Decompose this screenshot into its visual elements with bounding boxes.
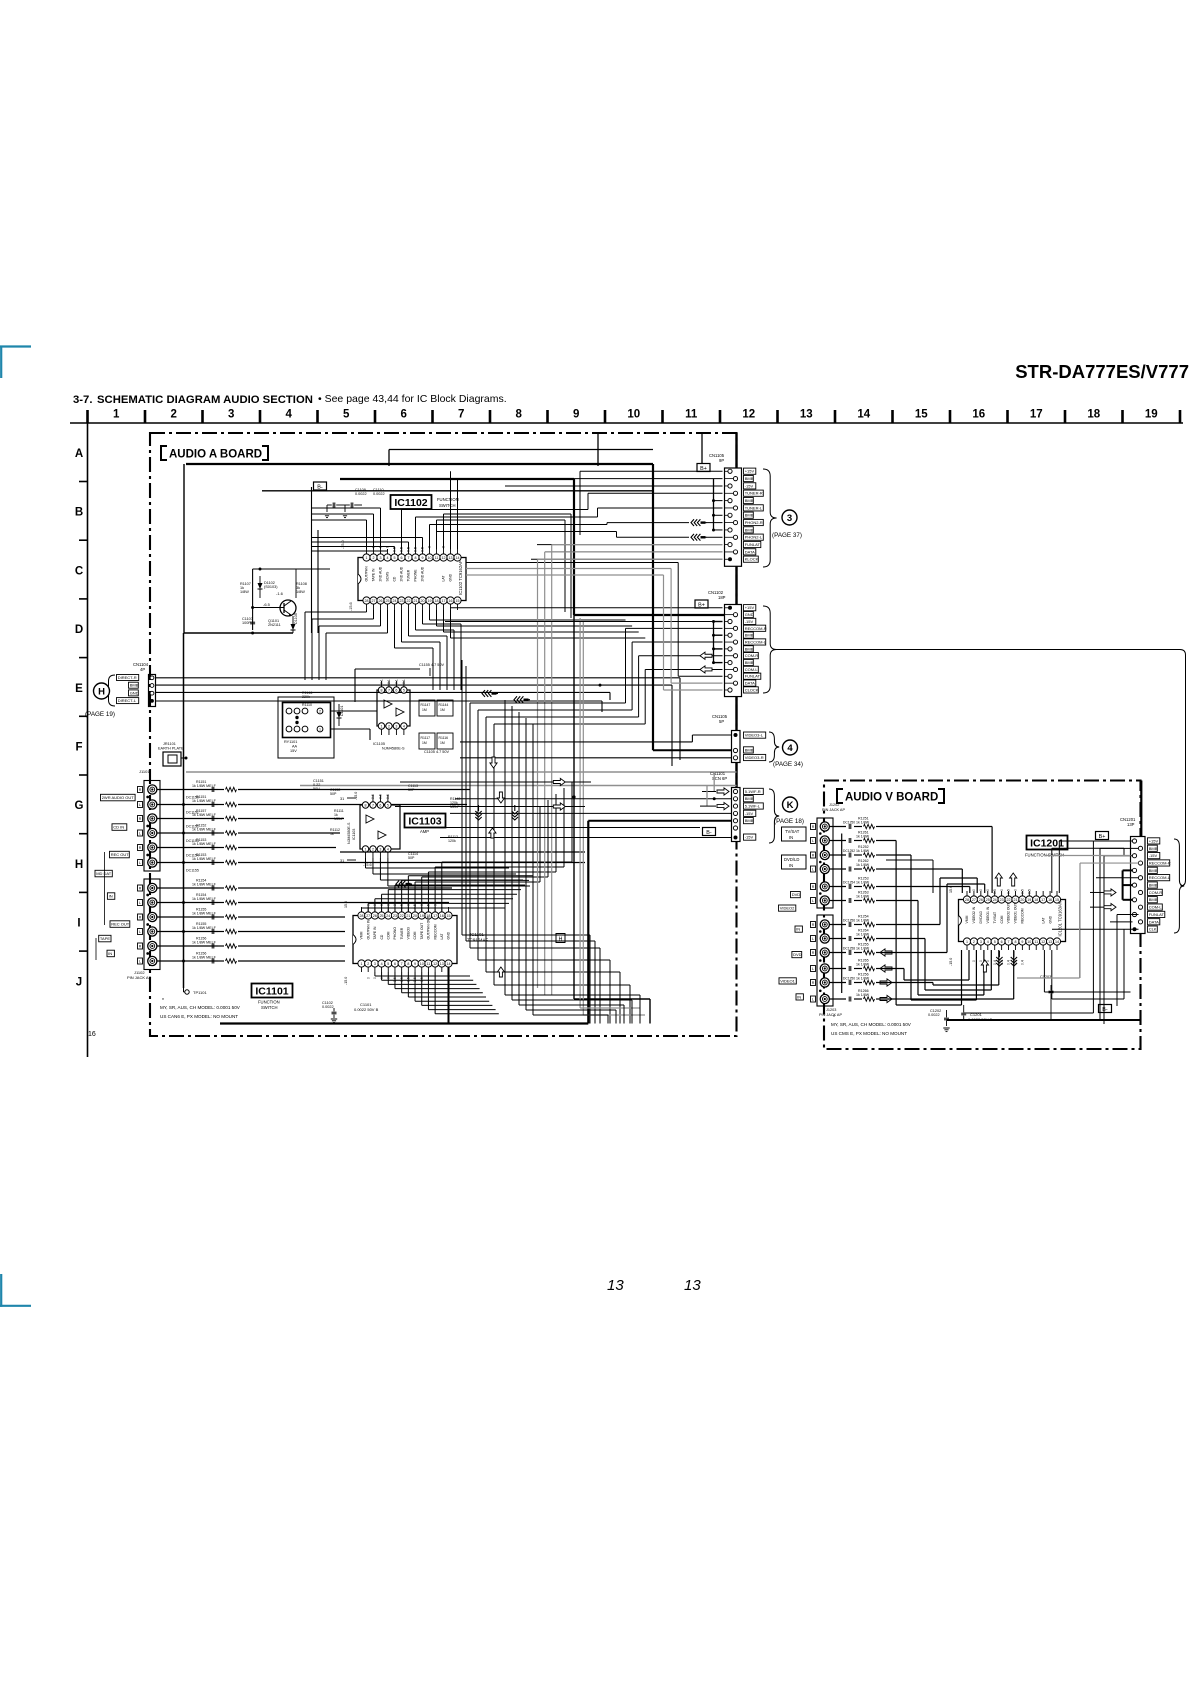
svg-text:CD IN: CD IN xyxy=(113,825,124,830)
svg-text:DIRECT-R: DIRECT-R xyxy=(118,675,137,680)
svg-text:L: L xyxy=(812,967,814,971)
wire transistor bottom rail xyxy=(184,632,293,634)
svg-text:20: 20 xyxy=(413,914,417,918)
svg-text:• See page 43,44 for IC Block: • See page 43,44 for IC Block Diagrams. xyxy=(318,393,507,405)
svg-text:(PAGE 34): (PAGE 34) xyxy=(773,761,803,768)
svg-text:4: 4 xyxy=(286,409,293,421)
svg-text:12: 12 xyxy=(1041,940,1045,944)
svg-text:12: 12 xyxy=(742,409,755,421)
IC U1102 pin stubs top xyxy=(366,549,368,554)
svg-text:0: 0 xyxy=(972,960,976,962)
IC U1101 label box xyxy=(252,984,293,998)
svg-text:B: B xyxy=(75,507,83,519)
svg-text:VIDEO2: VIDEO2 xyxy=(780,906,795,911)
capacitor C1107 xyxy=(250,621,255,623)
svg-text:0: 0 xyxy=(979,889,983,891)
svg-text:16: 16 xyxy=(972,409,985,421)
svg-text:1/8W: 1/8W xyxy=(296,590,305,594)
svg-text:17: 17 xyxy=(1041,898,1045,902)
wire B+ bus CN1201 xyxy=(1140,781,1142,842)
svg-text:TUNER-L: TUNER-L xyxy=(745,505,763,510)
svg-text:2N2111: 2N2111 xyxy=(268,623,281,627)
wire thick right edge x588 xyxy=(587,821,589,1024)
registration corner mark top-left xyxy=(0,345,31,347)
svg-text:AMP: AMP xyxy=(420,829,429,834)
svg-text:-15.0: -15.0 xyxy=(344,977,348,985)
wire transistor area top hline xyxy=(253,568,330,570)
svg-text:US CMS E, PX MODEL: NO MOUNT: US CMS E, PX MODEL: NO MOUNT xyxy=(831,1031,907,1036)
svg-text:RY1101: RY1101 xyxy=(284,740,297,744)
svg-text:-15V: -15V xyxy=(1149,853,1158,858)
wire bundle IC1102 bottom cascade mid xyxy=(394,610,396,648)
svg-text:3: 3 xyxy=(379,847,381,851)
svg-text:13: 13 xyxy=(1048,940,1052,944)
wire transistor area vline x252 xyxy=(252,569,254,630)
svg-text:14: 14 xyxy=(456,556,460,560)
IC U1102 pin stubs bottom xyxy=(366,604,368,610)
svg-text:BMB: BMB xyxy=(1149,897,1158,902)
svg-text:1k 1/8W MELF: 1k 1/8W MELF xyxy=(192,897,217,901)
svg-text:8: 8 xyxy=(516,409,523,421)
svg-text:TUNER: TUNER xyxy=(400,927,404,939)
svg-text:TAPE: TAPE xyxy=(100,936,110,941)
svg-text:2: 2 xyxy=(973,940,975,944)
svg-text:I: I xyxy=(77,918,80,930)
svg-text:1: 1 xyxy=(365,847,367,851)
svg-text:1k 1/8W: 1k 1/8W xyxy=(856,849,870,853)
svg-text:1k 1/8W MELF: 1k 1/8W MELF xyxy=(192,956,217,960)
page reference circle K xyxy=(783,797,798,812)
svg-text:21: 21 xyxy=(1013,898,1017,902)
wire CN1105 BMB join vertical xyxy=(713,479,715,530)
wire bundle to CN1101 xyxy=(713,772,715,792)
svg-text:AUDIO V BOARD: AUDIO V BOARD xyxy=(845,792,938,804)
svg-text:26: 26 xyxy=(379,599,383,603)
wire CN1201 thick gnd hooks xyxy=(1122,870,1124,899)
wire top hline y449.5 xyxy=(389,449,653,451)
svg-text:VIDEO1 OUT: VIDEO1 OUT xyxy=(1014,903,1018,924)
svg-text:1M: 1M xyxy=(440,741,445,745)
svg-text:16: 16 xyxy=(1048,898,1052,902)
svg-text:11: 11 xyxy=(427,962,431,966)
svg-text:L: L xyxy=(812,998,814,1002)
svg-text:1k 1/8W MELF: 1k 1/8W MELF xyxy=(192,912,217,916)
wire V row12 to pin8 xyxy=(880,998,1014,1000)
resistor network boxes R1147 R1144 xyxy=(419,700,435,716)
svg-text:14: 14 xyxy=(857,409,870,421)
svg-text:H: H xyxy=(559,937,563,943)
svg-text:50P: 50P xyxy=(330,792,337,796)
svg-text:CD: CD xyxy=(380,934,384,939)
svg-text:7: 7 xyxy=(458,409,464,421)
wire CN1102 COM arrows xyxy=(700,652,712,659)
svg-text:11: 11 xyxy=(435,556,439,560)
svg-text:L: L xyxy=(812,899,814,903)
svg-text:GND: GND xyxy=(449,573,453,581)
svg-text:7: 7 xyxy=(401,962,403,966)
svg-text:BMB: BMB xyxy=(745,747,754,752)
wire top inner hline y490.8 xyxy=(262,490,653,492)
svg-text:100P: 100P xyxy=(242,621,251,625)
svg-text:31: 31 xyxy=(340,859,344,863)
svg-text:IC1103: IC1103 xyxy=(352,829,356,840)
svg-text:DATA: DATA xyxy=(1149,919,1159,924)
svg-text:AA: AA xyxy=(292,745,298,749)
arrow chevron left 2 xyxy=(514,696,517,703)
svg-text:17: 17 xyxy=(1030,409,1043,421)
svg-text:C: C xyxy=(75,565,83,577)
svg-text:A: A xyxy=(75,448,83,460)
net label H box xyxy=(556,934,565,943)
svg-text:1: 1 xyxy=(966,940,968,944)
svg-text:VMM: VMM xyxy=(360,931,364,939)
svg-text:28: 28 xyxy=(360,914,364,918)
svg-text:IC1201 TC9163AN: IC1201 TC9163AN xyxy=(1058,901,1063,936)
svg-text:27: 27 xyxy=(972,898,976,902)
IC U1201 label box xyxy=(1027,836,1068,850)
svg-text:MY, SR, AUS, CH MODEL: 0.0001: MY, SR, AUS, CH MODEL: 0.0001 50V xyxy=(160,1005,241,1010)
wire vertical x311 left rail xyxy=(311,487,313,633)
wire V board gray right xyxy=(1079,901,1081,978)
svg-text:1M: 1M xyxy=(422,741,427,745)
svg-text:BMB: BMB xyxy=(745,633,754,638)
svg-text:26: 26 xyxy=(979,898,983,902)
svg-text:AUDIO A BOARD: AUDIO A BOARD xyxy=(169,449,262,461)
svg-text:21: 21 xyxy=(406,914,410,918)
net label B- box V board xyxy=(1099,1005,1112,1013)
svg-text:DVD/LD: DVD/LD xyxy=(784,857,799,862)
svg-text:PHONE: PHONE xyxy=(414,569,418,582)
svg-text:5: 5 xyxy=(394,556,396,560)
svg-text:0: 0 xyxy=(972,889,976,891)
svg-text:1: 1 xyxy=(319,727,321,731)
svg-text:14: 14 xyxy=(447,962,451,966)
wire bundle V upper nest xyxy=(886,859,933,861)
svg-text:7: 7 xyxy=(388,688,390,692)
svg-text:6: 6 xyxy=(395,688,397,692)
wire V row7 around to pin xyxy=(880,924,940,926)
svg-text:EARTH PLATE: EARTH PLATE xyxy=(158,747,184,751)
svg-text:IN: IN xyxy=(108,951,112,956)
svg-text:MY, SR, AUS, CH MODEL: 0.0001: MY, SR, AUS, CH MODEL: 0.0001 50V xyxy=(831,1022,912,1027)
connector CN1101 labels xyxy=(744,788,764,794)
wire IC1102 pins 11-12 to right xyxy=(436,520,438,549)
svg-text:12: 12 xyxy=(433,962,437,966)
svg-text:COM: COM xyxy=(1000,915,1004,923)
svg-text:5P: 5P xyxy=(719,719,724,724)
IC U1201 pin stubs xyxy=(966,891,968,896)
svg-text:R: R xyxy=(812,885,815,889)
svg-text:IC1105: IC1105 xyxy=(373,742,385,746)
svg-text:OUT/PHN: OUT/PHN xyxy=(365,566,369,582)
svg-text:DC1252: DC1252 xyxy=(843,849,855,853)
svg-text:18P: 18P xyxy=(718,595,726,600)
svg-text:R1147: R1147 xyxy=(421,703,431,707)
svg-text:TAPE IN: TAPE IN xyxy=(372,568,376,581)
svg-text:CLK: CLK xyxy=(1149,927,1157,932)
svg-text:0.5: 0.5 xyxy=(1007,889,1011,894)
svg-text:0.5: 0.5 xyxy=(1021,889,1025,894)
wire bundle mid verticals xyxy=(504,700,506,995)
svg-text:0.0022: 0.0022 xyxy=(322,1005,334,1009)
wire CN1201 feeds xyxy=(1093,840,1132,842)
svg-text:COM-L: COM-L xyxy=(1149,905,1163,910)
wire IC1102 right side rows xyxy=(466,562,678,564)
svg-text:GND: GND xyxy=(130,690,139,695)
page reference circle 4 xyxy=(783,740,798,755)
svg-text:H: H xyxy=(98,686,105,697)
wire bundle IC1103 bottom cascade xyxy=(365,858,367,868)
svg-text:SWITCH: SWITCH xyxy=(261,1005,278,1010)
svg-text:11: 11 xyxy=(1034,940,1038,944)
svg-text:CLOCK: CLOCK xyxy=(745,687,759,692)
svg-text:COM: COM xyxy=(386,931,390,939)
svg-text:27: 27 xyxy=(366,914,370,918)
svg-text:STR-DA777ES/V777: STR-DA777ES/V777 xyxy=(1015,361,1189,382)
wire CN1201 lower feeds xyxy=(1117,914,1139,916)
svg-text:0.0022: 0.0022 xyxy=(355,492,367,496)
svg-text:1k 1/8W MELF: 1k 1/8W MELF xyxy=(192,799,217,803)
wire bundle IC1101 bottom cascade xyxy=(374,972,376,976)
svg-text:RECCOM: RECCOM xyxy=(433,924,437,939)
svg-text:BMB: BMB xyxy=(745,660,754,665)
svg-text:BMB: BMB xyxy=(745,513,754,518)
arrow chevron left IC1101 xyxy=(396,881,399,888)
wire IC1102 pin14 up xyxy=(457,479,459,549)
svg-text:B+: B+ xyxy=(1099,834,1106,840)
svg-text:2: 2 xyxy=(171,409,177,421)
wire opamp top rail xyxy=(355,668,420,670)
svg-text:L: L xyxy=(139,930,141,934)
svg-text:1k 1/8W MELF: 1k 1/8W MELF xyxy=(192,857,217,861)
svg-text:BMB: BMB xyxy=(1149,846,1158,851)
svg-text:*: * xyxy=(833,1015,835,1021)
arrow open up IC1101 xyxy=(497,967,504,977)
wire bundle V rows to IC1201 top pins xyxy=(880,826,992,828)
svg-text:22: 22 xyxy=(400,914,404,918)
AUDIO A BOARD border xyxy=(150,433,737,1036)
connector CN1201 labels xyxy=(1148,838,1160,844)
svg-text:0.4: 0.4 xyxy=(1007,960,1011,965)
net label B+ box CN1105 xyxy=(697,464,710,472)
svg-text:220k: 220k xyxy=(302,695,310,699)
wire bundle IC1102 bottom cascade left xyxy=(366,610,368,612)
svg-text:DATA: DATA xyxy=(745,681,755,686)
IC U1101 pin stubs xyxy=(361,907,363,912)
svg-text:23: 23 xyxy=(400,599,404,603)
svg-text:3: 3 xyxy=(395,724,397,728)
svg-text:LAT: LAT xyxy=(442,576,446,582)
svg-text:TV/SAT: TV/SAT xyxy=(993,912,997,924)
svg-text:1k 1/8W: 1k 1/8W xyxy=(856,947,870,951)
svg-text:10: 10 xyxy=(420,962,424,966)
arrow chevron left 1 xyxy=(482,690,485,697)
svg-text:L: L xyxy=(812,937,814,941)
svg-text:1k 1/8W: 1k 1/8W xyxy=(856,933,870,937)
svg-text:-1.6: -1.6 xyxy=(276,591,284,596)
svg-text:*: * xyxy=(162,998,164,1004)
svg-text:B-: B- xyxy=(1102,1007,1108,1013)
svg-text:10: 10 xyxy=(1027,940,1031,944)
svg-text:F: F xyxy=(75,742,82,754)
svg-text:CD: CD xyxy=(393,576,397,581)
wire CN1102 +15V -15V rows xyxy=(450,607,723,609)
svg-text:COM: COM xyxy=(413,931,417,939)
svg-text:2WR AUDIO OUT: 2WR AUDIO OUT xyxy=(102,795,135,800)
op-amp U1105 body NJM4580E-S xyxy=(377,690,410,726)
svg-text:BMB: BMB xyxy=(745,498,754,503)
wire CN1102 DATA feed gray xyxy=(671,682,722,684)
svg-text:8: 8 xyxy=(1014,940,1016,944)
svg-text:BMB: BMB xyxy=(1149,868,1158,873)
wire link line CN1102 to CN1201 xyxy=(777,650,1186,887)
svg-text:3: 3 xyxy=(787,513,792,524)
svg-text:IN: IN xyxy=(789,863,793,868)
svg-text:50P: 50P xyxy=(408,788,415,792)
svg-text:0: 0 xyxy=(979,960,983,962)
svg-text:FUNCTION: FUNCTION xyxy=(437,497,459,502)
svg-text:+15V: +15V xyxy=(745,469,755,474)
arrow open down 1 xyxy=(490,757,497,768)
wire bus x653 to CN1106 xyxy=(653,749,732,751)
svg-text:0.4: 0.4 xyxy=(993,960,997,965)
svg-text:R: R xyxy=(139,887,142,891)
svg-text:7: 7 xyxy=(408,556,410,560)
svg-text:(PAGE 19): (PAGE 19) xyxy=(85,711,115,718)
svg-text:28: 28 xyxy=(965,898,969,902)
svg-text:IC1101: IC1101 xyxy=(255,986,288,998)
svg-text:4: 4 xyxy=(381,962,383,966)
wire CN1201 arrows xyxy=(1104,889,1116,896)
svg-text:DC1250: DC1250 xyxy=(843,821,855,825)
svg-text:G: G xyxy=(75,800,84,812)
wire relay to opamp xyxy=(331,710,378,712)
V board input labels xyxy=(782,827,807,841)
wire V board bottom thick xyxy=(947,1019,1142,1021)
net label B+ box CN1201 xyxy=(1096,832,1109,840)
svg-text:5: 5 xyxy=(994,940,996,944)
svg-text:-15.0: -15.0 xyxy=(354,792,358,800)
wire V jack rows with resistors xyxy=(830,826,847,828)
svg-text:2: 2 xyxy=(373,556,375,560)
svg-text:27: 27 xyxy=(372,599,376,603)
svg-text:26: 26 xyxy=(373,914,377,918)
svg-text:KLOCK: KLOCK xyxy=(745,557,759,562)
svg-text:R1110: R1110 xyxy=(302,703,312,707)
wire bundle IC1101 top right short xyxy=(414,882,416,912)
wire bundle to CN1105 xyxy=(573,478,723,480)
brace CN1106 xyxy=(769,732,779,762)
wire x574 continuation down xyxy=(573,615,575,999)
svg-text:L: L xyxy=(812,868,814,872)
svg-text:13: 13 xyxy=(800,409,813,421)
svg-text:R: R xyxy=(139,788,142,792)
svg-text:DC1151: DC1151 xyxy=(186,811,199,815)
wire long row y852 xyxy=(340,851,585,853)
svg-text:24: 24 xyxy=(393,599,397,603)
svg-text:JR1101: JR1101 xyxy=(163,742,176,746)
jack R L markers xyxy=(138,787,143,793)
svg-text:L: L xyxy=(139,803,141,807)
op-amp U1103 body NJM4580E-S xyxy=(360,805,400,849)
svg-text:16: 16 xyxy=(440,914,444,918)
svg-text:DC1153: DC1153 xyxy=(186,839,199,843)
svg-text:RECCOM: RECCOM xyxy=(1021,908,1025,923)
arrow open down 2 xyxy=(497,792,504,803)
svg-text:DIRECT-L: DIRECT-L xyxy=(118,698,137,703)
svg-text:B-: B- xyxy=(317,485,323,491)
svg-text:FUNLAT: FUNLAT xyxy=(745,542,761,547)
wire collector to bus xyxy=(295,569,297,598)
svg-text:13: 13 xyxy=(607,1277,624,1294)
svg-text:13: 13 xyxy=(449,556,453,560)
brace CN1101 xyxy=(769,789,779,843)
svg-text:5.1WF-R: 5.1WF-R xyxy=(745,789,761,794)
svg-text:PHON2-L: PHON2-L xyxy=(745,535,763,540)
IC U1102 label box xyxy=(391,495,432,509)
svg-text:RECCOM-L: RECCOM-L xyxy=(1149,875,1171,880)
svg-text:3: 3 xyxy=(228,409,234,421)
wire bundle V rows to IC1201 bottom pins xyxy=(880,840,896,842)
svg-text:PIN JACK AP: PIN JACK AP xyxy=(822,808,845,812)
svg-text:VIDEO1 IN: VIDEO1 IN xyxy=(986,906,990,923)
svg-text:19: 19 xyxy=(1145,409,1158,421)
svg-text:RECCOM-L: RECCOM-L xyxy=(745,639,767,644)
svg-text:22: 22 xyxy=(1007,898,1011,902)
svg-text:D1105: D1105 xyxy=(294,613,298,624)
svg-text:15: 15 xyxy=(915,409,928,421)
svg-text:10: 10 xyxy=(627,409,640,421)
svg-text:8: 8 xyxy=(381,688,383,692)
svg-text:1M: 1M xyxy=(422,708,427,712)
svg-text:DVD/LD: DVD/LD xyxy=(979,911,983,924)
svg-text:MELF: MELF xyxy=(334,817,344,821)
wire jack rows with resistors xyxy=(157,789,218,791)
svg-text:8: 8 xyxy=(415,556,417,560)
svg-text:DC1152: DC1152 xyxy=(186,825,199,829)
wire thick gnd bus x574 xyxy=(573,479,575,615)
svg-text:8: 8 xyxy=(365,803,367,807)
svg-text:BMB: BMB xyxy=(745,646,754,651)
svg-text:4P: 4P xyxy=(140,667,145,672)
svg-text:1: 1 xyxy=(366,556,368,560)
svg-text:18: 18 xyxy=(1034,898,1038,902)
svg-text:1: 1 xyxy=(361,962,363,966)
IC U1102 body TC9162AF xyxy=(358,558,466,601)
svg-text:J: J xyxy=(76,976,82,988)
svg-text:28: 28 xyxy=(365,599,369,603)
svg-text:1k 1/8W: 1k 1/8W xyxy=(856,835,870,839)
svg-text:COM-R: COM-R xyxy=(1149,890,1163,895)
svg-text:IC1102 TC9162AF: IC1102 TC9162AF xyxy=(458,560,463,595)
svg-text:R: R xyxy=(139,945,142,949)
svg-text:IN: IN xyxy=(796,927,800,932)
svg-text:FUNLAT: FUNLAT xyxy=(1149,912,1165,917)
net label B+ box CN1102 xyxy=(695,600,708,608)
svg-text:DC1150: DC1150 xyxy=(186,796,199,800)
wire bundle IC1102 bottom cascade right xyxy=(429,610,431,620)
svg-text:OUT/PHN IN: OUT/PHN IN xyxy=(366,919,370,939)
wire CN1105 +15V row xyxy=(580,470,723,472)
svg-text:R: R xyxy=(139,817,142,821)
arrow open right pair xyxy=(400,781,591,783)
wire CN1105 TUNER rows xyxy=(588,492,723,494)
svg-text:13: 13 xyxy=(440,962,444,966)
svg-text:50P: 50P xyxy=(408,856,415,860)
svg-text:0.0022 50V B: 0.0022 50V B xyxy=(354,1007,379,1012)
svg-text:R: R xyxy=(812,854,815,858)
svg-text:6: 6 xyxy=(394,962,396,966)
